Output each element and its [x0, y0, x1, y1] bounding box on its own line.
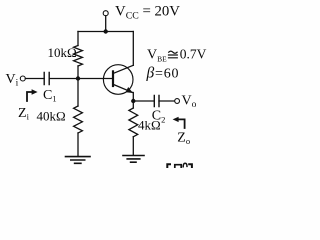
terminal Vo [175, 99, 180, 104]
svg-text:VBE: VBE [147, 48, 167, 64]
transistor Q1 collector stroke [114, 65, 134, 73]
svg-text:C1: C1 [43, 88, 57, 104]
ground (left) [66, 157, 91, 164]
transistor Q1 emitter stroke [114, 85, 133, 93]
svg-text:C2: C2 [152, 109, 166, 125]
transistor Q1 circle [103, 65, 133, 95]
svg-text:Zo: Zo [177, 130, 190, 146]
transistor Q1 base bar [112, 71, 114, 86]
svg-text:VCC = 20V: VCC = 20V [115, 4, 180, 22]
svg-text:Zi: Zi [18, 106, 30, 122]
resistor R3 4k zigzag [129, 108, 138, 137]
wire rail to R1 top [77, 32, 79, 46]
node base-divider junction dot [76, 76, 80, 80]
junction dot emitter/output node [131, 99, 135, 103]
resistor R1 10k zigzag [74, 46, 83, 67]
junction dot rail/Vcc [104, 29, 108, 33]
wire R1 bottom to base node [77, 66, 79, 79]
svg-text:β=60: β=60 [146, 64, 180, 81]
wire emitter down to output node [132, 93, 134, 102]
svg-text:Vi: Vi [6, 72, 19, 89]
arrow Zo (output impedance) [179, 119, 185, 128]
terminal Vcc [103, 11, 108, 16]
terminal Vi [20, 76, 25, 81]
svg-text:10kΩ: 10kΩ [48, 45, 77, 60]
wire collector to rail [132, 32, 134, 66]
capacitor C2 plates [154, 96, 159, 107]
wire emitter node to C2 [133, 100, 154, 102]
wire Vi to C1 [25, 78, 44, 80]
svg-text:0.7V: 0.7V [180, 47, 207, 62]
wire R2 top: base node down [77, 79, 79, 107]
capacitor C1 plates [44, 73, 49, 85]
wire R2 bottom to ground [77, 133, 79, 156]
transistor Q1 emitter arrowhead [126, 87, 133, 93]
resistor R2 40k zigzag [74, 106, 83, 133]
approx-equal symbol of VBE value [169, 51, 177, 53]
svg-text:40kΩ: 40kΩ [37, 108, 66, 123]
caption top sliver (figure label) [167, 164, 170, 168]
wire Vcc terminal to rail [105, 16, 107, 32]
svg-text:Vo: Vo [182, 93, 197, 110]
ground (right) [123, 156, 144, 163]
wire R3 bottom to ground [132, 137, 134, 155]
arrow Zi (input impedance) [27, 92, 33, 101]
top supply rail wire [78, 31, 133, 33]
wire C1 to base [49, 78, 112, 80]
wire C2 to Vo terminal [159, 100, 175, 102]
wire emitter node down to R3 [132, 101, 134, 108]
